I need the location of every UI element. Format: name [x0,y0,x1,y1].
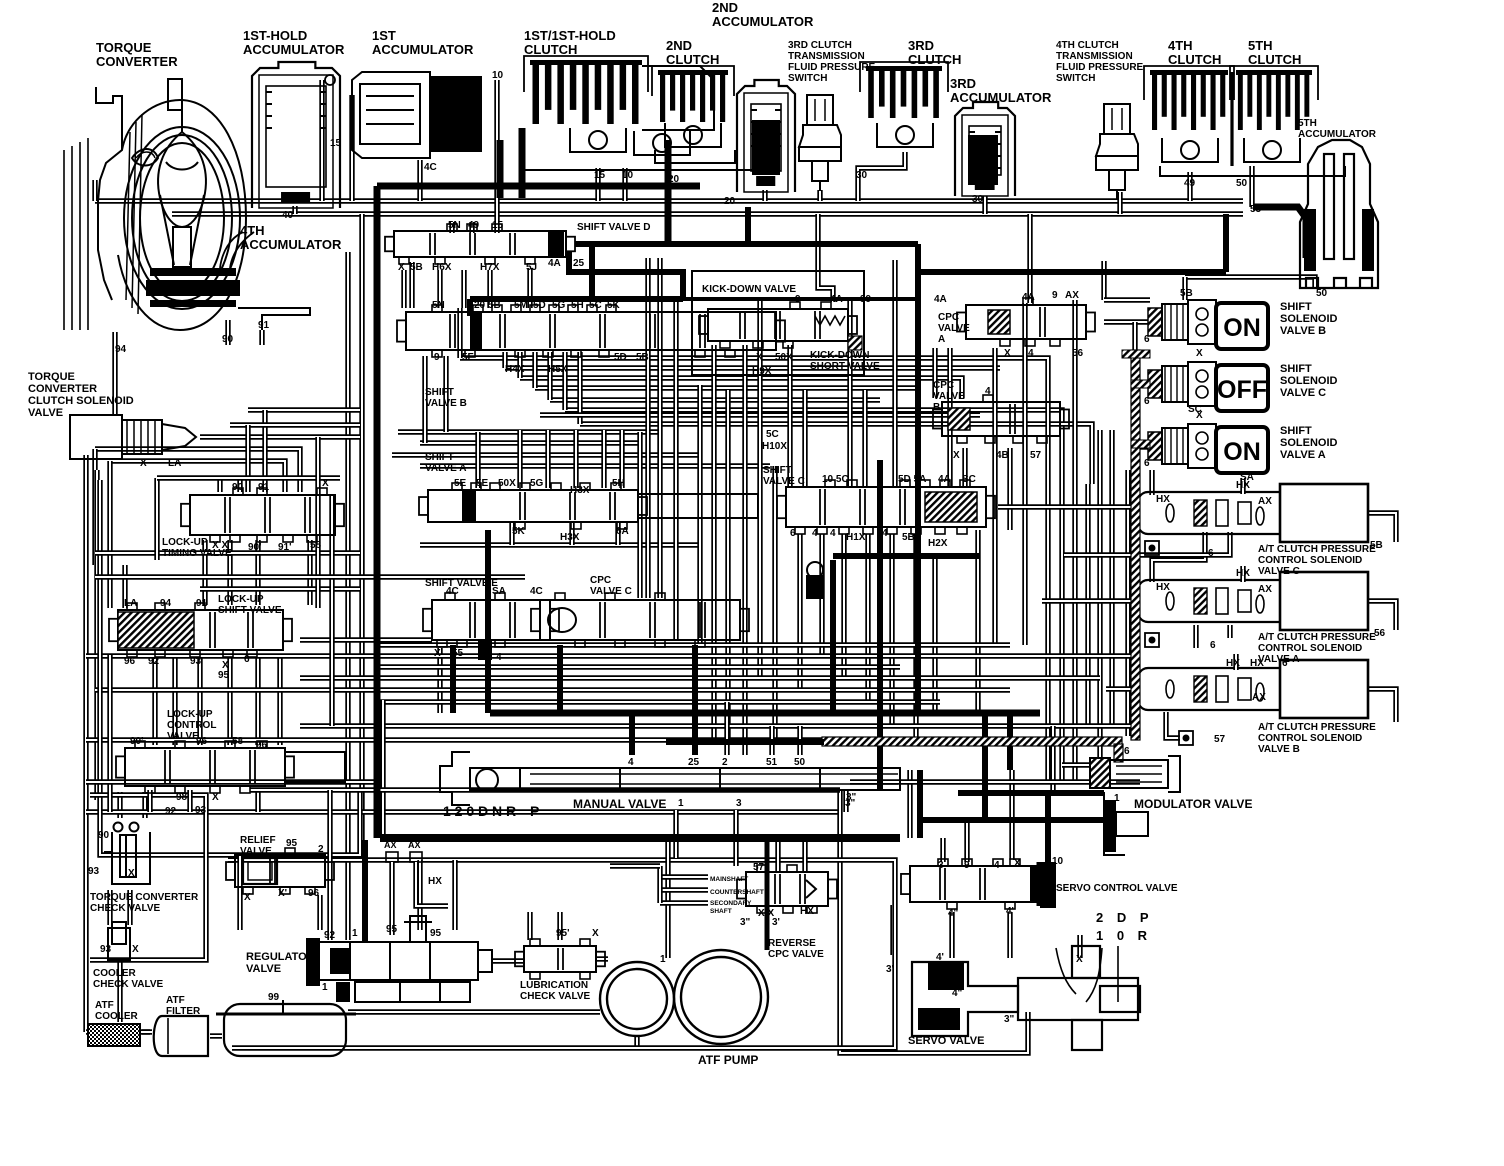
svg-text:X: X [322,478,329,489]
svg-text:H9X: H9X [752,366,772,377]
svg-text:93: 93 [195,805,207,816]
svg-text:CONVERTER: CONVERTER [28,383,97,395]
wire tc check to cooler check [107,890,112,925]
svg-text:6: 6 [1144,396,1150,407]
wire center vertical 10 [847,300,852,487]
wire valveB port [502,352,507,368]
svg-text:20: 20 [668,174,680,185]
A/T clutch pressure control solenoid valve B [1138,660,1368,718]
wire center vertical 8 [787,345,792,487]
svg-text:5K: 5K [512,526,526,537]
regulator valve bolt [410,916,426,942]
svg-text:ATF: ATF [95,1000,114,1011]
svg-text:2 D P: 2 D P [1096,910,1154,925]
wire 5B drop [401,270,406,308]
svg-text:A/T CLUTCH PRESSURE: A/T CLUTCH PRESSURE [1258,722,1376,733]
svg-text:CONTROL SOLENOID: CONTROL SOLENOID [1258,733,1362,744]
svg-text:5C: 5C [589,300,602,311]
wire to reverse cpc [775,838,780,872]
svg-text:5TH: 5TH [1248,38,1273,53]
wire 15 accumulator side pipe [319,80,324,201]
wire strainer to pump [348,1009,600,1014]
servo control valve [901,859,1049,909]
svg-text:4A: 4A [938,474,951,485]
1st-hold clutch piston [634,131,690,155]
1st/1st-hold clutch drum [642,66,714,130]
relief valve spring box [243,858,277,884]
1st accumulator black body [430,76,482,152]
svg-text:SHIFT VALVE E: SHIFT VALVE E [425,578,498,589]
wire left col2 [107,461,112,608]
svg-text:5TH: 5TH [1298,118,1317,129]
wire 3 drop to box [733,810,738,866]
svg-text:3": 3" [740,917,751,928]
shift valve C [777,480,995,534]
servo valve [912,946,1140,1050]
svg-text:58: 58 [232,736,244,747]
svg-text:1ST-HOLD: 1ST-HOLD [243,28,307,43]
svg-text:57: 57 [1030,450,1042,461]
svg-text:20: 20 [724,196,736,207]
solenoid C OFF box [1216,365,1268,411]
3rd clutch pack [860,62,948,118]
svg-text:A/T CLUTCH PRESSURE: A/T CLUTCH PRESSURE [1258,632,1376,643]
shift valve D [385,224,575,264]
wire thick 4 manual [629,713,635,755]
wire left vertical b [94,470,99,800]
svg-text:94: 94 [160,598,172,609]
wire 5K run [550,397,880,402]
svg-text:5B: 5B [636,352,649,363]
5th accumulator [1300,140,1378,288]
wire regulator 92 feed [327,790,332,940]
svg-text:4: 4 [496,652,502,663]
wire center vertical 13 [992,348,997,645]
svg-text:MODULATOR VALVE: MODULATOR VALVE [1134,797,1252,811]
svg-text:ACCUMULATOR: ACCUMULATOR [1298,129,1377,140]
cooler check valve [108,922,130,960]
wire X drop [1077,935,1082,958]
svg-text:5B: 5B [1180,288,1193,299]
wire kick-down 4A feed [818,214,833,302]
torque converter hub black bands [150,268,236,276]
reverse CPC valve [737,865,837,913]
svg-text:4": 4" [952,988,963,999]
wire 91 run [110,461,285,492]
wire H3X drop [569,522,574,545]
svg-text:4: 4 [985,386,991,397]
4th/5th clutch base [1160,166,1345,176]
svg-text:H3X: H3X [570,485,590,496]
3rd accumulator [955,102,1015,196]
wire thick cpcC drop [557,645,563,713]
wire bus 667 [380,664,900,669]
wire valve C to cpc C [998,504,1138,509]
wire cpc B in [1106,686,1138,691]
wire H7X drop [487,270,492,308]
svg-text:6: 6 [1210,640,1216,651]
svg-text:92: 92 [148,656,160,667]
wire left vertical run 2 [345,252,350,940]
wire thick modulator bus [958,790,1104,796]
wire kickdown bus through box [683,297,918,301]
svg-text:50X: 50X [498,478,516,489]
svg-text:A: A [938,334,945,345]
lubrication check valve [515,939,605,979]
svg-text:SHIFT VALVE D: SHIFT VALVE D [577,222,651,233]
svg-text:X: X [398,262,405,273]
svg-text:2ND: 2ND [666,38,692,53]
svg-text:TORQUE CONVERTER: TORQUE CONVERTER [90,892,199,903]
svg-text:X: X [1196,410,1203,421]
svg-text:5D: 5D [614,352,627,363]
wire center extra 6 [1022,303,1027,645]
1st-hold accumulator top circle [325,75,335,85]
svg-text:4TH: 4TH [240,223,265,238]
svg-text:B: B [933,402,940,413]
svg-text:6: 6 [790,528,796,539]
wire to valve A [619,430,624,488]
wire long bus 726 [300,723,1140,728]
4th clutch piston [1162,138,1218,162]
svg-text:SOLENOID: SOLENOID [1280,437,1338,449]
wire 5H run [520,378,962,398]
wire cpc a to b [932,348,937,398]
svg-text:X: X [132,944,139,955]
wire 3 drop [1009,770,1014,860]
solenoid A ON box [1216,427,1268,473]
wire solenoid B lower feed [1104,319,1150,324]
wire thick kickdown bus [470,296,683,302]
wire thick valve C under-run [833,553,980,559]
wire cpc C to A [1152,532,1205,582]
wire long bus 656 [86,653,1140,658]
wire shaft feed [610,863,660,868]
svg-text:AX: AX [1065,290,1079,301]
svg-text:H3X: H3X [560,532,580,543]
svg-text:X: X [140,458,147,469]
wire timing valve port2 [237,480,242,492]
wire lubrication feed [527,912,532,940]
wire 4th switch stem [1117,192,1122,214]
wire to cpc C [1149,470,1154,495]
2nd accumulator black core [752,120,780,175]
wire run 466 [420,463,770,468]
wire 1 drop to box [673,810,678,858]
svg-text:95': 95' [556,928,570,939]
wire 50 drop [797,726,802,755]
svg-text:96: 96 [196,736,208,747]
wire to valve A [601,430,606,488]
svg-text:10: 10 [1052,856,1064,867]
wire center vertical 4 [697,385,702,645]
bottom left enclosure box [90,795,206,960]
svg-text:5F: 5F [462,352,474,363]
svg-text:VALVE: VALVE [933,391,965,402]
svg-text:HX: HX [1226,658,1240,669]
wire long bus 678 [300,675,1100,680]
svg-text:95: 95 [386,924,398,935]
svg-text:5N: 5N [448,220,461,231]
wire thick servo control feed [1045,793,1051,866]
black blob below shift valve E [478,640,492,660]
svg-text:VALVE A: VALVE A [425,463,466,474]
wire cooler to filter [142,1029,152,1034]
svg-text:50: 50 [1236,178,1248,189]
svg-text:VALVE: VALVE [240,846,272,857]
CPC valve C ball [548,608,576,632]
wire shaft manifold [657,866,662,903]
wire center extra 2 [725,390,730,740]
svg-text:4: 4 [830,528,836,539]
wire cooler check to cooler [117,960,122,1022]
wire thick to valve B land [467,299,473,316]
wire timing valve box left [154,478,159,560]
svg-text:H10X: H10X [762,441,787,452]
shift valve E [423,593,559,647]
svg-text:3': 3' [886,964,894,975]
wire solenoid to LA [200,434,360,439]
wire box edge drop [665,842,670,958]
svg-text:50: 50 [1316,288,1328,299]
wire to valve A [517,430,522,488]
svg-text:VALVE: VALVE [246,963,281,975]
svg-text:1: 1 [322,982,328,993]
wire 3rd accumulator drain [982,196,987,214]
svg-text:5B: 5B [410,262,423,273]
wire 10 to valve D [494,145,499,233]
shift valve A extension [638,494,758,518]
wire center vertical 9 [802,390,807,487]
svg-text:ON: ON [1223,438,1261,466]
svg-text:HX: HX [1236,568,1250,579]
torque converter left pipes [63,150,65,330]
svg-text:93: 93 [100,944,112,955]
svg-text:LOCK-UP: LOCK-UP [218,594,264,605]
wire right vertical 5 [1097,430,1102,780]
lock-up timing valve [181,488,344,542]
1st clutch base [522,158,758,170]
wire thick feed to hatched pipe [666,739,824,745]
svg-text:1: 1 [352,928,358,939]
svg-text:VALVE A: VALVE A [1258,654,1299,665]
ATF filter inner [167,1018,169,1054]
wire right vertical 7 [1125,470,1130,736]
wire 50 5th clutch feed [1249,166,1254,207]
wire timing to shift2 [227,540,232,605]
svg-text:4C: 4C [424,162,437,173]
svg-text:HX: HX [428,876,442,887]
wire 57 to reverse cpc [802,838,807,872]
wire regulator feed [417,860,422,930]
svg-text:CONTROL SOLENOID: CONTROL SOLENOID [1258,555,1362,566]
svg-text:90: 90 [232,482,244,493]
wire center vertical 7 [757,300,762,680]
wire lockup 3 [197,655,202,745]
svg-text:90: 90 [98,830,110,841]
wire thick valveA drop [485,530,491,713]
wire 2 drop [724,702,729,755]
svg-text:H7X: H7X [480,262,500,273]
hatched feed pipe to modulator [822,737,1122,746]
wire thick right bus [918,269,1226,275]
wire cpc A out2 [1227,625,1232,638]
svg-text:93: 93 [190,656,202,667]
wire run 589 [200,586,360,591]
wire far left vertical [83,455,88,1032]
wire run 790 [250,787,840,792]
servo enclosure box [840,790,1028,1053]
wire long bus 740 [86,737,1000,742]
svg-text:SHIFT: SHIFT [763,465,792,476]
black blob below shift valve C [806,575,824,599]
svg-text:51: 51 [766,757,778,768]
wire right vertical 4 [1085,484,1090,726]
svg-text:LA: LA [168,458,181,469]
svg-text:SHIFT: SHIFT [425,452,454,463]
wire countershaft [660,887,708,892]
svg-text:90': 90' [248,542,262,553]
A/T clutch pressure control solenoid valve A [1138,572,1368,630]
wire 4'' drop [949,912,954,958]
svg-text:CLUTCH: CLUTCH [1248,52,1301,67]
shift valve C hatched section [925,492,977,522]
wire pump bottom [634,1036,639,1046]
wire run 553 [95,550,360,555]
wire 3-doubleprime line [843,790,848,812]
wire thick center vertical [915,244,921,713]
wire to valve A [573,430,578,488]
wire loop upper [248,407,360,412]
wire accumulator side pipe 2 [349,95,354,201]
wire lockup 4 [227,655,232,745]
shift solenoid valve B [1148,300,1216,344]
svg-text:6A: 6A [616,526,629,537]
svg-text:AX: AX [1252,692,1266,703]
svg-text:P: P [530,803,539,819]
relief valve [226,848,334,894]
wire to shift valve E [300,637,432,642]
manual valve enclosure [380,700,385,838]
wire solenoid C feed [1135,382,1150,387]
wire loop drop [262,410,267,492]
wire lockup 2 [172,655,177,745]
wire thick servo drop [982,713,988,820]
svg-text:ATF: ATF [166,995,185,1006]
svg-text:SHAFT: SHAFT [710,908,732,915]
svg-text:VALVE C: VALVE C [1280,387,1326,399]
wire 5F run [398,429,660,434]
svg-text:X: X [1014,858,1021,869]
svg-text:TRANSMISSION: TRANSMISSION [1056,51,1133,62]
wire left col [92,449,97,565]
svg-text:15: 15 [330,138,342,149]
svg-text:FLUID PRESSURE: FLUID PRESSURE [788,62,876,73]
wire relief to regulator [317,895,322,930]
svg-text:ACCUMULATOR: ACCUMULATOR [240,237,342,252]
wire bus 702 [380,699,940,704]
solenoid B ON box [1216,303,1268,349]
svg-text:99: 99 [268,992,280,1003]
svg-text:4A: 4A [548,258,561,269]
reverse CPC valve arrow [806,880,816,898]
wire control valve drain 2 [187,790,192,812]
svg-text:SHIFT: SHIFT [1280,425,1312,437]
wire 30 3rd clutch feed [858,152,905,201]
svg-text:1: 1 [660,954,666,965]
wire 3' to servo [890,905,895,955]
ATF cooler [88,1024,140,1046]
wire thick left vertical [374,186,381,838]
svg-text:90: 90 [222,334,234,345]
wire thick 55 drop [1223,214,1229,272]
svg-text:LA: LA [124,598,137,609]
wire 5K drop [509,522,514,545]
wire lockup feed [122,565,127,608]
wire thick bus to solenoid B [1101,261,1106,300]
wire regulator feed2 [452,860,457,930]
svg-text:6: 6 [1208,548,1214,559]
wire to valve A [545,430,550,488]
svg-text:SERVO CONTROL VALVE: SERVO CONTROL VALVE [1056,883,1178,894]
wire lockup shift to control [152,655,157,745]
svg-text:SERVO VALVE: SERVO VALVE [908,1035,984,1047]
wire cpc B 57 out [1368,689,1396,722]
svg-text:56: 56 [1374,628,1386,639]
wire solenoid B feed [1104,297,1150,302]
wire center vertical 5 [711,345,716,740]
wire to modulator [1062,762,1090,767]
wire to cooler [86,1029,150,1034]
wire valve C drop H2X [913,534,918,740]
wire center vertical 2 [657,258,662,598]
wire solenoid column [1132,322,1137,470]
wire left col extend [107,655,112,812]
svg-text:SOLENOID: SOLENOID [1280,375,1338,387]
svg-text:4: 4 [812,528,818,539]
svg-text:ACCUMULATOR: ACCUMULATOR [712,14,814,29]
wire 1st-hold accumulator drain [292,206,297,214]
wire center extra 1 [637,432,642,598]
svg-text:5E: 5E [454,478,467,489]
wire center vertical 11 [862,390,867,487]
svg-text:X: X [212,792,219,803]
svg-text:AX: AX [384,840,397,850]
CPC valve A [957,298,1095,346]
wire center vertical 6 [742,345,747,755]
wire cpc b drop 2 [1007,448,1012,530]
wire right vertical 2 [1059,484,1064,780]
wire thick bottom bus [490,710,1040,717]
wire cpc a drop [947,348,952,487]
svg-text:5D 5A: 5D 5A [898,474,926,485]
svg-text:55: 55 [1250,204,1262,215]
wire lockup 6 [277,655,282,745]
wire valve E X drop [437,648,442,713]
2nd clutch piston [665,123,721,147]
svg-text:SC: SC [962,474,976,485]
svg-text:H2X: H2X [928,538,948,549]
svg-text:X: X [756,352,763,363]
2nd clutch pack [652,66,734,122]
wire left mid vertical 3 [329,656,334,726]
wire 4B run [580,424,1092,484]
wire thick valve D out bus [575,241,918,247]
svg-text:LOCK-UP: LOCK-UP [162,537,208,548]
svg-text:REGULATOR: REGULATOR [246,951,315,963]
wire 10 line [494,80,499,145]
svg-text:4A: 4A [934,294,947,305]
